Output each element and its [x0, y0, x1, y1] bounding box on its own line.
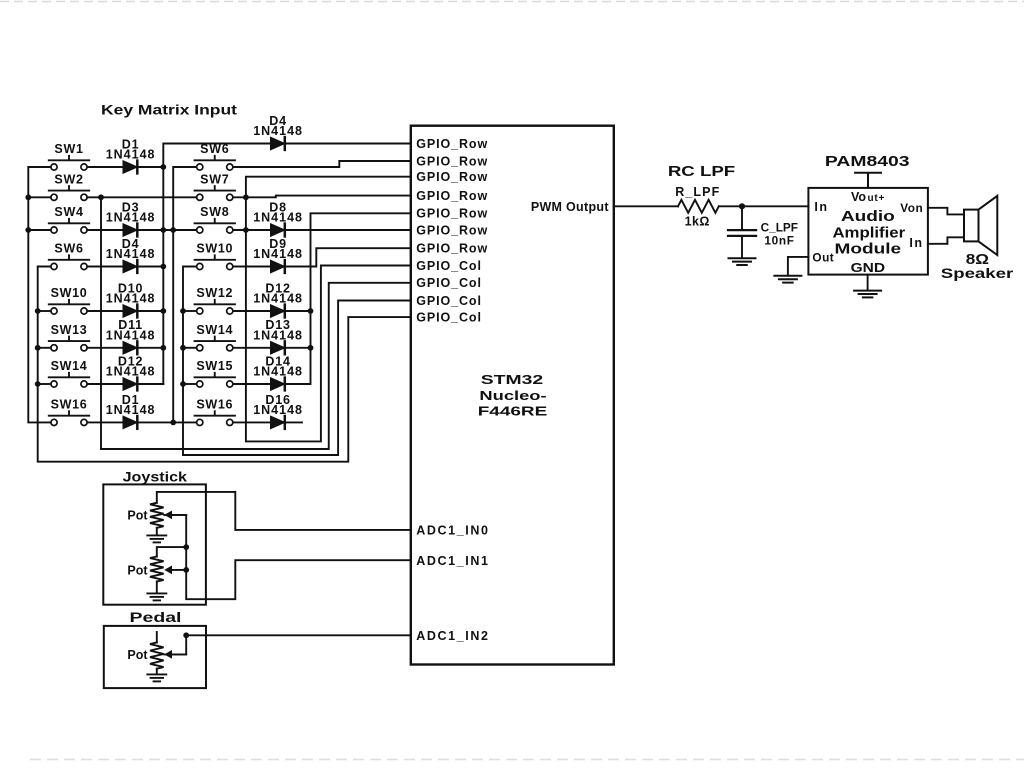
- wire: column bus D (SW10/SW12/SW14/SW15 right-group left terminals to GPIO_Col3): [183, 267, 411, 456]
- label PAM8403: [825, 152, 910, 169]
- pin label GPIO_Row #7: [416, 242, 488, 256]
- pin label ADC1_IN2: [416, 629, 489, 643]
- wire: D16 output stub: [285, 421, 302, 423]
- svg-text:GPIO_Col: GPIO_Col: [416, 294, 482, 308]
- svg-text:Joystick: Joystick: [123, 469, 188, 485]
- wire: D3 cathode through buses to SW8 input: [137, 229, 196, 231]
- wire: D4 cathode to row bus: [137, 266, 163, 268]
- wire: D1(D15) cathode to SW16 right-group input: [137, 421, 196, 423]
- ground (joystick pot Y): [147, 593, 166, 600]
- wire: Von to speaker +: [928, 208, 964, 215]
- switch SW6 (left group row 4): [49, 242, 89, 270]
- svg-text:SW6: SW6: [54, 242, 83, 256]
- wire: D12 cathode to row bus: [137, 383, 163, 385]
- diode D4 1N4148 (top, on GPIO_Row1 wire): [253, 114, 303, 150]
- pin label ADC1_IN0: [416, 524, 489, 538]
- svg-text:Key Matrix Input: Key Matrix Input: [101, 103, 238, 118]
- svg-text:GPIO_Col: GPIO_Col: [416, 311, 482, 325]
- ground (PAM8403 GND): [854, 291, 881, 298]
- pin label GPIO_Row #1: [416, 137, 488, 151]
- title: Key Matrix Input: [101, 103, 238, 118]
- wire: right-group row 5 switch output to diode anode: [233, 310, 271, 312]
- svg-text:SW14: SW14: [51, 359, 88, 373]
- svg-text:1N4148: 1N4148: [106, 365, 156, 379]
- pin label ADC1_IN1: [416, 554, 489, 568]
- power flag on PAM8403 Vout pin: [855, 173, 881, 188]
- svg-text:F446RE: F446RE: [478, 404, 548, 418]
- pin label GPIO_Col #8: [416, 259, 482, 273]
- switch SW15 (right group row 7): [195, 359, 235, 387]
- wire: joystick pot X top to ADC1_IN0: [157, 492, 411, 530]
- wire: GPIO_Row6 net (D8 output to pin6): [285, 229, 411, 231]
- svg-text:GND: GND: [851, 260, 885, 274]
- wire: D1 cathode to row bus: [137, 166, 163, 168]
- junction: row bus / D4 output: [160, 264, 166, 270]
- wire: SW12 left terminal stub: [183, 310, 197, 312]
- svg-text:ut+: ut+: [868, 193, 886, 204]
- svg-text:PWM Output: PWM Output: [531, 200, 610, 214]
- diode D4 1N4148 (left group row 4): [106, 237, 156, 273]
- wire: column bus A (SW1/SW2/SW4 left terminals down to SW16 row): [28, 167, 51, 422]
- junction: bus C end / row8: [170, 420, 176, 426]
- diode D10 1N4148 (left group row 5): [106, 281, 156, 317]
- module U2 PAM8403 Audio Amplifier Module: [808, 188, 928, 275]
- svg-text:RC LPF: RC LPF: [668, 163, 735, 180]
- diode D14 1N4148 (right group row 7): [253, 354, 303, 390]
- svg-text:GPIO_Row: GPIO_Row: [416, 154, 488, 168]
- ground (PAM8403 Out): [774, 276, 801, 283]
- wire: wiper bus to ADC1_IN1: [186, 547, 411, 599]
- svg-text:SW4: SW4: [54, 205, 83, 219]
- svg-text:GPIO_Row: GPIO_Row: [416, 242, 488, 256]
- junction: wiper bus / pot Y top: [183, 544, 189, 550]
- switch SW2 (left group row 2): [49, 173, 89, 201]
- diode D3 1N4148 (left group row 3): [106, 200, 156, 236]
- svg-text:Speaker: Speaker: [941, 266, 1014, 281]
- svg-text:1N4148: 1N4148: [106, 148, 156, 162]
- wire: PAM8403 GND pin: [867, 275, 869, 290]
- potentiometer Pot (joystick X): [127, 503, 186, 535]
- pin label Out (PAM8403): [812, 251, 834, 265]
- switch SW16 (right group row 8): [195, 398, 235, 426]
- diode D11 1N4148 (left group row 6): [106, 318, 156, 354]
- svg-text:GPIO_Col: GPIO_Col: [416, 276, 482, 290]
- wire: right-group row 6 switch output to diode anode: [233, 347, 271, 349]
- pin label In (PAM8403 right): [909, 236, 923, 250]
- svg-text:GPIO_Row: GPIO_Row: [416, 170, 488, 184]
- junction: RC node: [739, 203, 745, 209]
- wire: SW14 right-group left terminal stub: [183, 347, 197, 349]
- wire: right-group row 4 switch output to diode anode: [233, 266, 271, 268]
- junction: bus C / SW8 left: [170, 227, 176, 233]
- svg-text:1N4148: 1N4148: [253, 403, 303, 417]
- junction: bus B / SW10 left: [35, 308, 41, 314]
- svg-text:1N4148: 1N4148: [106, 403, 156, 417]
- svg-text:1kΩ: 1kΩ: [685, 214, 710, 228]
- junction: bus B / SW13 left: [35, 345, 41, 351]
- svg-text:SW7: SW7: [200, 173, 229, 187]
- svg-text:In: In: [814, 200, 828, 214]
- wire: pedal pot wiper to ADC1_IN2: [164, 635, 411, 654]
- junction: bus B / SW14 left: [35, 381, 41, 387]
- wire: SW4 to D3 anode: [87, 229, 123, 231]
- ground (C_LPF): [729, 258, 756, 265]
- pin label GPIO_Col #11: [416, 311, 482, 325]
- label Joystick: [123, 469, 188, 485]
- svg-text:SW14: SW14: [196, 323, 233, 337]
- pin label PWM Output: [531, 200, 610, 214]
- wire: SW10 to D10 anode: [87, 310, 123, 312]
- junction: bus D / SW12 left: [180, 308, 186, 314]
- wire: GPIO_Row5 net (vertical x310 joining D12/D13/D14 outputs): [285, 213, 411, 384]
- switch SW12 (right group row 5): [195, 286, 235, 314]
- svg-text:C_LPF: C_LPF: [761, 220, 798, 234]
- svg-text:GPIO_Col: GPIO_Col: [416, 259, 482, 273]
- wire: D13 output to row5 vertical: [285, 347, 311, 349]
- wire: SW2 output to SW7 input (row 2 horizontal): [87, 196, 196, 198]
- junction: pedal wiper node: [183, 632, 189, 638]
- junction: row bus / D1 output: [160, 164, 166, 170]
- wire: SW16 to D1(D15) anode: [87, 421, 123, 423]
- diode D12 1N4148 (right group row 5): [253, 281, 303, 317]
- diode D12 1N4148 (left group row 7): [106, 354, 156, 390]
- svg-text:STM32: STM32: [481, 373, 543, 387]
- wire: PAM8403 Out pin to ground: [788, 257, 809, 275]
- svg-text:Pot: Pot: [127, 564, 148, 578]
- pin label GPIO_Row #5: [416, 207, 488, 221]
- svg-text:ADC1_IN1: ADC1_IN1: [416, 554, 489, 568]
- potentiometer Pot (joystick Y): [127, 557, 186, 593]
- svg-text:1N4148: 1N4148: [106, 247, 156, 261]
- svg-text:ADC1_IN0: ADC1_IN0: [416, 524, 489, 538]
- junction: row5 vertical / D13 output: [308, 345, 314, 351]
- label RC LPF: [668, 163, 735, 180]
- wire: GPIO_Row2 net (SW6 right-group output, step at x339): [233, 161, 411, 167]
- wire: SW10 left terminal stub: [38, 310, 51, 312]
- wire: SW14 left terminal stub: [38, 383, 51, 385]
- svg-text:Pot: Pot: [127, 648, 148, 662]
- svg-text:1N4148: 1N4148: [106, 211, 156, 225]
- svg-text:1N4148: 1N4148: [253, 328, 303, 342]
- svg-text:Von: Von: [900, 201, 923, 215]
- diode D8 1N4148 (right group row 3): [253, 200, 303, 236]
- svg-text:10nF: 10nF: [764, 233, 794, 247]
- switch SW6 (right group row 1): [195, 142, 235, 170]
- switch SW10 (right group row 4): [195, 242, 235, 270]
- wire: GPIO_Row4 net (jog at x276 into row 2): [233, 196, 411, 198]
- pin label In (PAM8403 input): [814, 200, 828, 214]
- wire: SW15 left terminal stub: [183, 383, 197, 385]
- svg-text:GPIO_Row: GPIO_Row: [416, 189, 488, 203]
- junction: row bus / D11 output: [160, 345, 166, 351]
- svg-text:1N4148: 1N4148: [253, 247, 303, 261]
- svg-text:SW16: SW16: [51, 398, 88, 412]
- wire: pot Y top terminal: [157, 547, 186, 556]
- wire: pot X wiper to wiper bus: [164, 515, 186, 547]
- switch SW13 (left group row 6): [49, 323, 89, 351]
- svg-text:Out: Out: [812, 251, 834, 265]
- junction: pin3 vertical / row2: [243, 194, 249, 200]
- svg-text:1N4148: 1N4148: [106, 328, 156, 342]
- svg-text:GPIO_Row: GPIO_Row: [416, 223, 488, 237]
- svg-text:SW1: SW1: [54, 142, 83, 156]
- svg-text:R_LPF: R_LPF: [675, 185, 720, 199]
- wire: SW14 to D12 anode: [87, 383, 123, 385]
- junction: pin3 vertical / SW8 row: [243, 227, 249, 233]
- switch SW10 (left group row 5): [49, 286, 89, 314]
- wire: SW13 to D11 anode: [87, 347, 123, 349]
- svg-text:1N4148: 1N4148: [253, 211, 303, 225]
- pin label GPIO_Col #10: [416, 294, 482, 308]
- pin label Von: [900, 201, 923, 215]
- wire: SW4 left terminal stub: [28, 229, 51, 231]
- wire: D11 cathode to row bus: [137, 347, 163, 349]
- junction: bus A / SW2 left: [25, 194, 31, 200]
- svg-text:PAM8403: PAM8403: [825, 152, 910, 169]
- svg-text:SW16: SW16: [196, 398, 233, 412]
- switch SW4 (left group row 3): [49, 205, 89, 233]
- pin label Vout+: [851, 190, 885, 204]
- svg-text:Nucleo-: Nucleo-: [479, 389, 546, 403]
- wire: PWM output to R_LPF: [614, 205, 678, 207]
- wire: GPIO_Row1 net - row bus (x163) up and right through diode D4 to pin: [163, 144, 410, 385]
- wire: right-group row 3 switch output to diode anode: [233, 229, 271, 231]
- switch SW8 (right group row 3): [195, 205, 235, 233]
- ground (pedal pot): [147, 674, 166, 681]
- wire: column bus B (SW6/SW10/SW13/SW14 left terminals to GPIO_Col4 pin): [38, 267, 411, 462]
- junction: row5 vertical / D12 output: [308, 308, 314, 314]
- svg-text:Audio: Audio: [841, 207, 895, 224]
- junction: row bus / D3 output: [160, 227, 166, 233]
- joystick enclosure box: [103, 484, 206, 604]
- wire: SW6 to D4 anode: [87, 266, 123, 268]
- resistor R_LPF 1k ohm: [675, 185, 720, 229]
- switch SW7 (right group row 2): [195, 173, 235, 201]
- wire: right-group row 8 switch output to diode anode: [233, 421, 271, 423]
- diode D9 1N4148 (right group row 4): [253, 237, 303, 273]
- junction: bus A / SW4 left: [25, 227, 31, 233]
- svg-text:ADC1_IN2: ADC1_IN2: [416, 629, 489, 643]
- IC U1 STM32 Nucleo-F446RE: [411, 126, 614, 665]
- switch SW16 (left group row 8): [49, 398, 89, 426]
- wire: GPIO_Col2 net (bus x101 from SW2 output junction to pin9): [101, 197, 411, 449]
- svg-text:SW8: SW8: [200, 205, 229, 219]
- diode D13 1N4148 (right group row 6): [253, 318, 303, 354]
- wire: GPIO_Row7 net (D9 output, step up at x316): [285, 248, 411, 266]
- wire: column bus C (SW6/SW8 right-group left terminals, x173): [173, 167, 196, 422]
- svg-text:SW15: SW15: [196, 359, 233, 373]
- wire: right-group row 7 switch output to diode anode: [233, 383, 271, 385]
- wire: In to speaker -: [928, 237, 964, 244]
- junction: bus D / SW14 left: [180, 345, 186, 351]
- svg-text:SW13: SW13: [51, 323, 88, 337]
- svg-text:SW10: SW10: [51, 286, 88, 300]
- pin label GPIO_Row #4: [416, 189, 488, 203]
- switch SW14 (left group row 7): [49, 359, 89, 387]
- pin label GPIO_Row #6: [416, 223, 488, 237]
- svg-text:Module: Module: [835, 239, 902, 256]
- speaker LS1 8 ohm: [941, 196, 1014, 282]
- wire: R_LPF to PAM8403 In: [719, 205, 809, 207]
- svg-text:1N4148: 1N4148: [253, 292, 303, 306]
- pedal enclosure box: [104, 626, 206, 688]
- ground (joystick pot X): [147, 535, 166, 542]
- wire: SW1 to D1 anode: [87, 166, 123, 168]
- pin label GPIO_Row #3: [416, 170, 488, 184]
- svg-text:1N4148: 1N4148: [253, 124, 303, 138]
- wire: GPIO_Row3 / GPIO_Col1 net (vertical x246 joining row2 and SW8, to pin8): [246, 177, 411, 442]
- svg-text:SW10: SW10: [196, 242, 233, 256]
- svg-text:In: In: [909, 236, 923, 250]
- svg-text:SW2: SW2: [54, 173, 83, 187]
- svg-text:1N4148: 1N4148: [106, 292, 156, 306]
- wire: pedal pot top stub: [156, 632, 158, 642]
- wire: SW13 left terminal stub: [38, 347, 51, 349]
- wire: SW2 left terminal stub: [28, 196, 51, 198]
- svg-text:Pedal: Pedal: [130, 609, 182, 625]
- label Pedal: [130, 609, 182, 625]
- pin label GPIO_Row #2: [416, 154, 488, 168]
- potentiometer Pot (pedal): [127, 642, 186, 673]
- svg-text:GPIO_Row: GPIO_Row: [416, 207, 488, 221]
- svg-text:1N4148: 1N4148: [253, 365, 303, 379]
- capacitor C_LPF 10nF: [728, 206, 798, 258]
- wire: D12 right-group output to row5 vertical: [285, 310, 311, 312]
- pin label GND: [851, 260, 885, 274]
- junction: bus D / SW15 left: [180, 381, 186, 387]
- wire: D10 cathode to row bus: [137, 310, 163, 312]
- junction: row bus / D10 output: [160, 308, 166, 314]
- pin label GPIO_Col #9: [416, 276, 482, 290]
- svg-text:Vo: Vo: [851, 190, 866, 204]
- diode D1 1N4148 (left group row 1): [106, 137, 156, 173]
- wire: SW8 right-group left terminal stub: [173, 229, 196, 231]
- svg-text:Pot: Pot: [127, 509, 148, 523]
- junction: wiper bus / pot Y wiper: [183, 567, 189, 573]
- svg-text:GPIO_Row: GPIO_Row: [416, 137, 488, 151]
- svg-text:8Ω: 8Ω: [966, 251, 989, 268]
- svg-text:SW12: SW12: [196, 286, 233, 300]
- diode D16 1N4148 (right group row 8): [253, 393, 303, 429]
- diode D1 1N4148 (left group row 8): [106, 393, 156, 429]
- junction: bus x101 / row2: [98, 194, 104, 200]
- switch SW14 (right group row 6): [195, 323, 235, 351]
- switch SW1 (left group row 1): [49, 142, 89, 170]
